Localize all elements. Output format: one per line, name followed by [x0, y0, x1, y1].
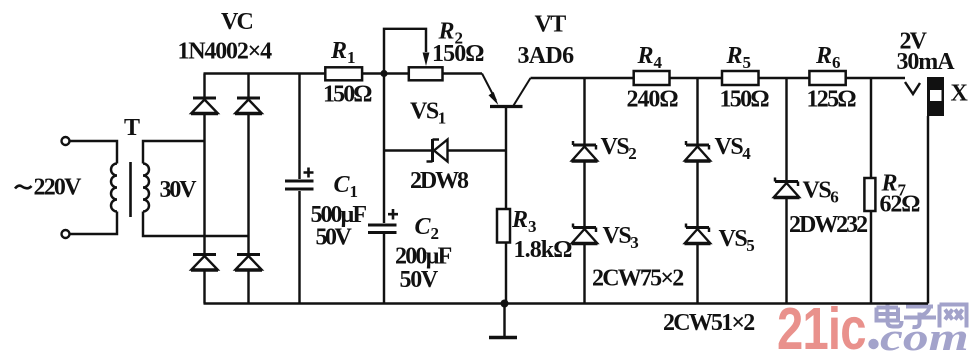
watermark .com — [868, 315, 968, 351]
transistor VT 3AD6 — [482, 74, 531, 151]
wire R7 column — [870, 78, 872, 304]
terminal bottom-left — [62, 230, 70, 238]
ground — [489, 304, 517, 338]
svg-text:30mA: 30mA — [897, 49, 956, 75]
svg-text:240Ω: 240Ω — [627, 87, 679, 113]
diode D1 top-left — [191, 98, 218, 114]
svg-text:50V: 50V — [400, 267, 439, 293]
diode D3 bottom-left — [191, 255, 218, 271]
node A junction dot — [380, 70, 387, 77]
zener VS1 2DW8 — [427, 139, 448, 162]
zener VS2 — [572, 141, 598, 161]
svg-text:125Ω: 125Ω — [807, 87, 857, 113]
svg-text:C2: C2 — [415, 214, 440, 243]
svg-text:21ic: 21ic — [777, 297, 866, 351]
svg-text:1.8kΩ: 1.8kΩ — [514, 237, 573, 263]
capacitor C1 — [285, 181, 314, 189]
svg-text:VS3: VS3 — [603, 223, 639, 252]
wire VS6 column — [785, 78, 787, 304]
svg-text:R4: R4 — [637, 43, 663, 72]
resistor R2 — [409, 67, 443, 80]
wire bridge right column — [247, 74, 249, 304]
svg-text:2DW8: 2DW8 — [410, 168, 469, 194]
wire VS4 VS5 column — [696, 78, 698, 304]
resistor R7 — [864, 178, 875, 211]
svg-text:T: T — [124, 115, 140, 141]
svg-text:2CW75×2: 2CW75×2 — [592, 266, 683, 292]
wire C1 column — [298, 74, 300, 304]
zener VS5 — [685, 224, 711, 244]
transformer T primary winding — [111, 164, 117, 212]
resistor R6 — [809, 71, 845, 85]
wire primary top — [70, 141, 118, 164]
wire bridge left column — [203, 74, 205, 304]
svg-text:30V: 30V — [160, 177, 198, 203]
resistor R3 — [497, 209, 510, 243]
svg-text:150Ω: 150Ω — [720, 87, 770, 113]
svg-text:200µF: 200µF — [395, 244, 452, 270]
terminal top-left — [62, 137, 70, 145]
svg-text:3AD6: 3AD6 — [518, 43, 575, 69]
diode D2 top-right — [235, 98, 262, 114]
resistor R1 — [325, 67, 362, 80]
capacitor C2 — [368, 225, 397, 233]
wire node A down — [383, 74, 385, 224]
svg-text:1N4002×4: 1N4002×4 — [178, 39, 273, 65]
wire R3 to bottom rail — [505, 243, 507, 304]
wire R2 wiper loop — [384, 29, 426, 74]
svg-text:150Ω: 150Ω — [323, 82, 372, 108]
wire primary bottom — [70, 212, 118, 235]
svg-text:R5: R5 — [726, 43, 752, 72]
label ~220V — [15, 186, 32, 189]
wire top rail right section — [531, 77, 906, 79]
transformer T secondary winding — [143, 164, 149, 212]
svg-text:VS4: VS4 — [715, 134, 752, 163]
svg-text:R3: R3 — [511, 207, 537, 236]
svg-text:X: X — [951, 81, 969, 107]
wire C2 bottom — [383, 234, 385, 304]
watermark 21ic — [777, 297, 866, 351]
svg-text:220V: 220V — [34, 175, 83, 201]
svg-text:VC: VC — [221, 9, 253, 35]
wire secondary top to bridge — [143, 141, 205, 164]
wire jack to bottom rail — [927, 116, 929, 304]
svg-text:VT: VT — [535, 12, 567, 38]
svg-text:R1: R1 — [330, 38, 356, 67]
svg-text:150Ω: 150Ω — [432, 41, 484, 67]
svg-text:2DW232: 2DW232 — [789, 212, 867, 238]
transformer core — [129, 162, 132, 217]
zener VS6 2DW232 — [774, 178, 800, 198]
wire top rail left section — [204, 72, 483, 74]
wire VS2 VS3 column — [583, 78, 585, 304]
wire secondary bottom to bridge — [143, 212, 249, 237]
svg-text:C1: C1 — [334, 172, 359, 201]
C1 plus sign — [304, 168, 314, 178]
zener VS4 — [685, 141, 711, 161]
svg-text:VS6: VS6 — [803, 178, 839, 207]
svg-text:VS2: VS2 — [601, 134, 637, 163]
zener VS3 — [572, 224, 598, 244]
wire bottom rail — [204, 302, 929, 304]
resistor R4 — [634, 71, 670, 85]
wire base column to R3 — [505, 151, 507, 210]
resistor R5 — [722, 71, 759, 85]
C2 plus sign — [388, 209, 398, 220]
wire VS1 branch — [384, 149, 506, 151]
svg-text:2CW51×2: 2CW51×2 — [663, 310, 754, 336]
svg-text:62Ω: 62Ω — [880, 192, 921, 218]
svg-text:VS1: VS1 — [410, 99, 446, 128]
svg-text:VS5: VS5 — [719, 226, 755, 255]
diode D4 bottom-right — [235, 255, 262, 271]
svg-text:50V: 50V — [316, 225, 353, 251]
jack X body — [927, 77, 944, 116]
watermark 电子网 — [877, 303, 967, 328]
plug contact V — [905, 82, 920, 94]
wiper arrowhead — [423, 53, 430, 67]
svg-text:R6: R6 — [815, 43, 841, 72]
junction dot bottom — [501, 300, 509, 308]
